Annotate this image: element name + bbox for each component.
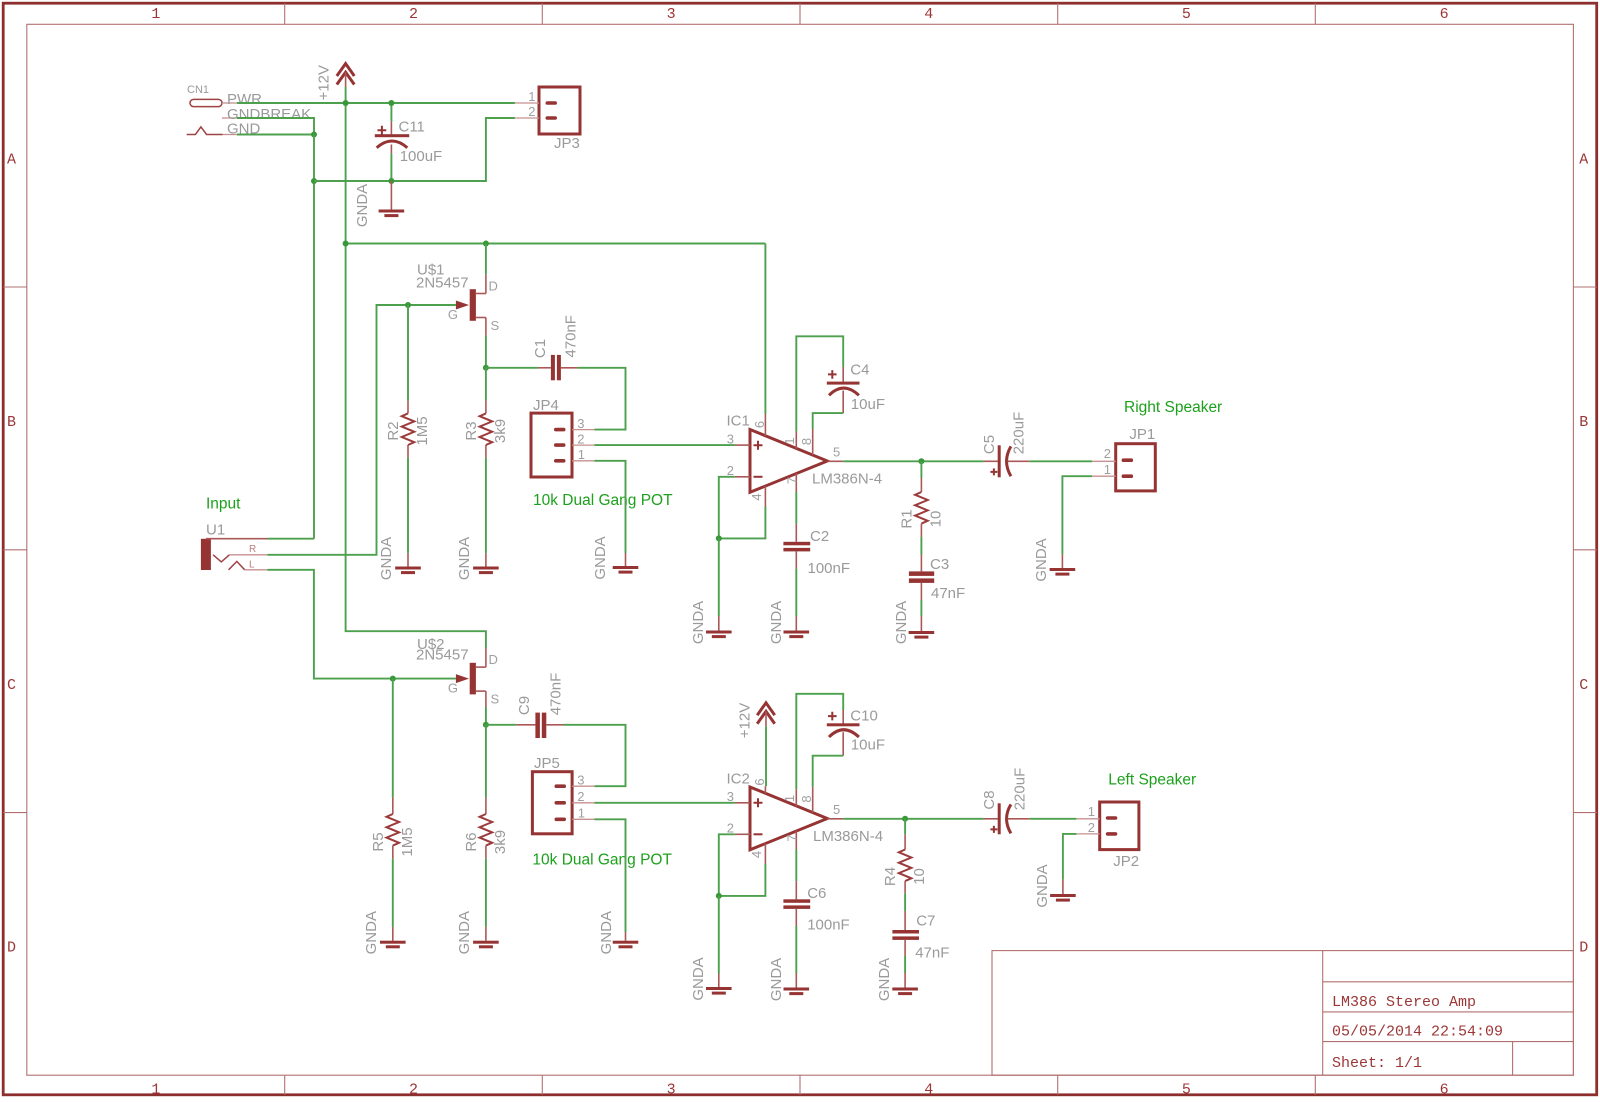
svg-text:2: 2: [727, 820, 734, 835]
svg-text:47nF: 47nF: [915, 945, 949, 962]
ground GNDA below C7: [876, 958, 918, 1001]
wire JP5 pin1 to ground: [594, 819, 625, 932]
node junction gate R2: [405, 302, 411, 308]
svg-text:10: 10: [911, 868, 928, 885]
ground GNDA below R6: [456, 911, 499, 954]
svg-text:C: C: [1579, 677, 1588, 694]
frame column tick bottom 3/4: [799, 1075, 801, 1094]
svg-text:6: 6: [752, 778, 767, 785]
svg-text:R6: R6: [463, 832, 480, 851]
svg-text:D: D: [1579, 940, 1588, 957]
svg-text:GNDA: GNDA: [456, 537, 473, 580]
svg-text:C10: C10: [850, 707, 878, 724]
wire IC2 pin1 bypass loop: [796, 694, 843, 789]
svg-text:A: A: [1579, 151, 1588, 168]
node junction output R4: [902, 816, 908, 822]
ground GNDA below R5: [363, 911, 406, 954]
svg-text:1: 1: [782, 437, 797, 444]
wire right channel input to U$1 gate: [268, 305, 456, 555]
wire +12V branch to IC1 pin6: [346, 243, 766, 245]
svg-text:GNDA: GNDA: [1034, 864, 1051, 907]
svg-text:6: 6: [752, 421, 767, 428]
ground GNDA below R3: [456, 537, 499, 580]
svg-text:Right Speaker: Right Speaker: [1124, 399, 1222, 416]
svg-text:6: 6: [1440, 6, 1449, 23]
svg-text:2: 2: [528, 104, 535, 119]
svg-text:JP5: JP5: [534, 755, 560, 772]
frame row labels left: [7, 151, 16, 956]
svg-text:U1: U1: [206, 521, 225, 538]
svg-text:2N5457: 2N5457: [416, 647, 469, 664]
node junction feedback 2: [716, 893, 722, 899]
pin CN1 GNDBREAK: [222, 106, 311, 123]
svg-text:4: 4: [924, 1081, 933, 1098]
svg-text:Left Speaker: Left Speaker: [1108, 772, 1196, 789]
svg-text:GNDA: GNDA: [363, 911, 380, 954]
svg-text:C11: C11: [399, 119, 425, 136]
svg-text:8: 8: [799, 795, 814, 802]
frame column tick top 2/3: [541, 3, 543, 24]
svg-text:4: 4: [749, 493, 764, 500]
wire GNDBREAK to GND net: [237, 118, 314, 135]
svg-text:D: D: [489, 279, 498, 294]
svg-text:LM386N-4: LM386N-4: [812, 471, 882, 488]
svg-text:GNDA: GNDA: [1033, 538, 1050, 581]
connector JP5: [532, 755, 594, 834]
resistor R4 10: [882, 819, 928, 911]
svg-text:C3: C3: [930, 556, 949, 573]
svg-text:3: 3: [727, 431, 734, 446]
supply symbol +12V bottom: [736, 703, 774, 738]
svg-text:10uF: 10uF: [851, 737, 885, 754]
svg-text:GNDA: GNDA: [592, 536, 609, 579]
svg-text:Input: Input: [206, 495, 241, 512]
wire IC2 pin4 to feedback node: [719, 864, 766, 896]
svg-text:+12V: +12V: [316, 65, 333, 100]
pin U1 L: [245, 560, 268, 571]
svg-text:3k9: 3k9: [492, 830, 509, 854]
resistor R6 3k9: [463, 725, 509, 927]
connector CN1 power jack: [187, 84, 223, 135]
svg-text:5: 5: [1182, 1081, 1191, 1098]
node junction U$1 drain branch: [483, 241, 489, 247]
svg-text:LM386N-4: LM386N-4: [813, 828, 883, 845]
wire C1 to JP4 pin3: [577, 368, 625, 430]
wire left channel input to U$2 gate: [268, 570, 456, 679]
frame column tick top 4/5: [1057, 3, 1059, 24]
node junction C11 top: [388, 100, 394, 106]
resistor R5 1M5: [370, 679, 416, 927]
svg-text:1: 1: [151, 1081, 160, 1098]
svg-text:C6: C6: [807, 885, 826, 902]
wire IC2 output: [843, 818, 983, 820]
svg-text:2: 2: [409, 1081, 418, 1098]
svg-text:1: 1: [782, 795, 797, 802]
capacitor C6 100nF on pin7: [783, 850, 849, 974]
transistor U$1 2N5457: [416, 262, 500, 336]
pin CN1 GND: [223, 121, 261, 138]
connector JP2: [1076, 802, 1139, 870]
svg-text:3: 3: [577, 773, 584, 788]
svg-text:5: 5: [833, 802, 840, 817]
node junction gate R5: [390, 676, 396, 682]
svg-text:10uF: 10uF: [851, 396, 885, 413]
frame column tick bottom 1/2: [284, 1075, 286, 1094]
svg-text:GNDA: GNDA: [456, 911, 473, 954]
svg-text:1: 1: [528, 89, 535, 104]
svg-text:3k9: 3k9: [492, 419, 509, 443]
svg-text:G: G: [448, 681, 458, 696]
node junction +12V branch: [343, 241, 349, 247]
svg-text:2: 2: [727, 463, 734, 478]
wire C10 bottom to IC2 pin8: [813, 756, 844, 787]
svg-text:GNDA: GNDA: [378, 537, 395, 580]
svg-text:7: 7: [785, 477, 800, 484]
capacitor C4 10uF: [827, 362, 885, 414]
svg-text:10k Dual Gang POT: 10k Dual Gang POT: [532, 852, 672, 869]
svg-text:S: S: [491, 692, 500, 707]
frame row tick right C/D: [1573, 812, 1597, 814]
frame row tick right A/B: [1573, 286, 1597, 288]
resistor R2 1M5: [385, 305, 431, 553]
ground GNDA below JP2: [1034, 864, 1076, 907]
ground GNDA below R2: [378, 537, 421, 580]
ground GNDA below IC2 pin2: [690, 957, 732, 1000]
wire GND pin to junction: [237, 134, 314, 136]
svg-text:5: 5: [1182, 6, 1191, 23]
svg-text:GNDA: GNDA: [768, 958, 785, 1001]
svg-text:2: 2: [577, 431, 584, 446]
svg-text:470nF: 470nF: [548, 673, 565, 716]
resistor R3 3k9: [463, 368, 509, 553]
wire JP1 pin1 to ground: [1062, 476, 1092, 554]
pin U1 sleeve: [229, 538, 268, 540]
svg-text:R3: R3: [463, 421, 480, 440]
svg-text:1: 1: [1104, 462, 1111, 477]
svg-text:L: L: [249, 560, 255, 571]
wire feedback node 2 to ground: [718, 896, 720, 974]
pin U1 R: [229, 544, 267, 555]
svg-text:S: S: [491, 318, 500, 333]
svg-text:5: 5: [833, 445, 840, 460]
svg-text:JP4: JP4: [533, 397, 559, 414]
svg-text:1M5: 1M5: [414, 416, 431, 445]
wire C5 to JP1 pin2: [1030, 460, 1092, 462]
wire C4 bottom to IC1 pin8: [813, 413, 844, 429]
svg-text:4: 4: [924, 6, 933, 23]
frame column tick bottom 5/6: [1314, 1075, 1316, 1094]
wire U$2 source to C9 node: [485, 707, 487, 725]
frame column labels bottom: [151, 1081, 1448, 1098]
resistor R1 10: [898, 461, 944, 554]
capacitor C8 220uF: [981, 768, 1030, 835]
frame column tick bottom 4/5: [1057, 1075, 1059, 1094]
svg-text:JP2: JP2: [1113, 853, 1139, 870]
svg-text:GNDA: GNDA: [354, 184, 371, 227]
ground GNDA below JP1: [1033, 538, 1075, 581]
svg-text:100nF: 100nF: [807, 917, 850, 934]
frame row tick left C/D: [3, 812, 27, 814]
svg-text:C: C: [7, 677, 16, 694]
svg-text:GNDA: GNDA: [598, 911, 615, 954]
wire +12V vertical rail: [346, 87, 486, 648]
title block row line 3: [1323, 1041, 1574, 1043]
svg-text:R4: R4: [882, 867, 899, 886]
wire +12V to IC2 pin6: [765, 726, 767, 786]
svg-text:JP1: JP1: [1129, 426, 1155, 443]
svg-text:GNDA: GNDA: [690, 957, 707, 1000]
svg-text:IC1: IC1: [727, 413, 750, 430]
svg-text:GNDA: GNDA: [768, 601, 785, 644]
transistor U$2 2N5457: [416, 636, 500, 707]
svg-text:1: 1: [578, 806, 585, 821]
frame row tick left B/C: [3, 549, 27, 551]
ground GNDA below C2: [768, 601, 809, 644]
svg-text:6: 6: [1440, 1081, 1449, 1098]
op-amp IC2 LM386N-4: [727, 771, 884, 865]
ground GNDA below C3: [893, 601, 934, 644]
svg-text:G: G: [448, 307, 458, 322]
title block sheet cell divider: [1512, 1042, 1514, 1076]
svg-text:2: 2: [1104, 446, 1111, 461]
wire JP4 pin2 to IC1 pin3: [594, 444, 734, 446]
svg-text:2: 2: [409, 6, 418, 23]
wire +12V net PWR to JP3 pin1: [237, 102, 515, 104]
svg-text:3: 3: [667, 6, 676, 23]
connector JP4: [531, 397, 594, 477]
svg-text:10: 10: [927, 511, 944, 528]
svg-text:05/05/2014 22:54:09: 05/05/2014 22:54:09: [1332, 1024, 1503, 1041]
wire IC2 pin2 feedback: [719, 834, 735, 896]
svg-text:2: 2: [1088, 820, 1095, 835]
svg-text:R5: R5: [370, 832, 387, 851]
svg-text:R: R: [249, 544, 256, 555]
svg-text:8: 8: [799, 438, 814, 445]
frame column tick top 1/2: [284, 3, 286, 24]
svg-text:B: B: [7, 414, 16, 431]
svg-text:3: 3: [577, 416, 584, 431]
svg-text:C7: C7: [916, 913, 935, 930]
svg-text:IC2: IC2: [727, 771, 750, 788]
node junction feedback: [716, 535, 722, 541]
wire IC1 pin4 to feedback node: [719, 507, 766, 539]
svg-text:B: B: [1579, 414, 1588, 431]
svg-text:100nF: 100nF: [808, 560, 851, 577]
svg-text:4: 4: [749, 851, 764, 858]
frame column labels top: [151, 6, 1448, 23]
capacitor C10 10uF: [827, 707, 885, 755]
svg-text:470nF: 470nF: [563, 315, 580, 358]
svg-text:C5: C5: [981, 435, 998, 454]
capacitor C9 470nF: [486, 673, 565, 738]
node junction source C9 R6: [483, 722, 489, 728]
svg-text:47nF: 47nF: [931, 585, 965, 602]
svg-text:C2: C2: [810, 528, 829, 545]
svg-text:220uF: 220uF: [1011, 412, 1028, 455]
svg-text:A: A: [7, 151, 16, 168]
svg-text:Sheet: 1/1: Sheet: 1/1: [1332, 1055, 1422, 1072]
ground GNDA below JP5 pin1: [598, 911, 638, 954]
wire JP4 pin1 to ground: [594, 461, 625, 553]
wire sleeve to GND vertical: [268, 538, 315, 540]
ground GNDA below C6: [768, 958, 809, 1001]
frame row tick right B/C: [1573, 549, 1597, 551]
svg-text:1: 1: [578, 447, 585, 462]
svg-text:GNDA: GNDA: [690, 601, 707, 644]
svg-text:LM386 Stereo Amp: LM386 Stereo Amp: [1332, 994, 1476, 1011]
ground GNDA below IC1 pin2: [690, 601, 732, 644]
svg-text:220uF: 220uF: [1012, 768, 1029, 811]
svg-text:C1: C1: [532, 339, 549, 358]
svg-text:R1: R1: [898, 509, 915, 528]
capacitor C1 470nF: [486, 315, 580, 380]
capacitor C2 100nF on pin7: [783, 492, 850, 616]
connector JP3: [515, 87, 580, 152]
svg-text:GNDA: GNDA: [893, 601, 910, 644]
svg-text:3: 3: [727, 789, 734, 804]
svg-text:1M5: 1M5: [399, 827, 416, 856]
wire U$1 source to C1 node: [485, 336, 487, 368]
connector U1 stereo input jack: [201, 521, 245, 570]
ground GNDA below JP4 pin1: [592, 536, 638, 579]
svg-text:D: D: [7, 940, 16, 957]
wire JP5 pin2 to IC2 pin3: [594, 802, 734, 804]
svg-text:1: 1: [1088, 804, 1095, 819]
svg-text:R2: R2: [385, 421, 402, 440]
node junction source C1 R3: [483, 365, 489, 371]
wire feedback node to ground: [718, 538, 720, 616]
wire IC1 pin1 bypass loop: [796, 336, 843, 431]
supply symbol +12V top: [316, 64, 355, 101]
frame column tick bottom 2/3: [541, 1075, 543, 1094]
svg-text:C9: C9: [516, 696, 533, 715]
capacitor C5 220uF: [981, 412, 1030, 478]
svg-text:+12V: +12V: [736, 703, 753, 738]
svg-text:10k Dual Gang POT: 10k Dual Gang POT: [533, 492, 673, 509]
capacitor C11: [375, 103, 442, 181]
pin CN1 PWR: [222, 91, 262, 108]
node junction +12V at PWR wire: [343, 100, 349, 106]
svg-text:100uF: 100uF: [400, 148, 443, 165]
node junction GND branch at y181: [311, 178, 317, 184]
title block outline: [992, 951, 1573, 1076]
title block row line 2: [1323, 1011, 1574, 1013]
connector JP1: [1092, 426, 1155, 491]
capacitor C7 47nF: [892, 911, 949, 973]
wire GND vertical down to input jack sleeve: [313, 135, 315, 539]
frame column tick top 3/4: [799, 3, 801, 24]
svg-text:D: D: [489, 652, 498, 667]
node junction GND at x314: [311, 132, 317, 138]
node junction C11 bottom: [388, 178, 394, 184]
node junction output R1: [918, 458, 924, 464]
wire C9 to JP5 pin3: [564, 725, 626, 786]
capacitor C3 47nF: [909, 555, 965, 617]
frame column tick top 5/6: [1314, 3, 1316, 24]
svg-text:C8: C8: [981, 790, 998, 809]
wire C8 to JP2 pin1: [1030, 818, 1077, 820]
svg-text:2N5457: 2N5457: [416, 275, 469, 292]
wire IC1 pin2 feedback: [719, 477, 735, 539]
svg-text:3: 3: [667, 1081, 676, 1098]
wire JP2 pin2 to ground: [1063, 834, 1077, 880]
title block divider vertical: [1322, 951, 1324, 1076]
frame row tick left A/B: [3, 286, 27, 288]
svg-text:2: 2: [577, 789, 584, 804]
svg-text:7: 7: [785, 834, 800, 841]
svg-text:JP3: JP3: [554, 135, 580, 152]
wire IC1 output: [843, 460, 983, 462]
title block row line 1: [1323, 981, 1574, 983]
wire GND branch to JP3 pin2: [314, 118, 515, 181]
wire U$1 drain: [485, 244, 487, 275]
op-amp IC1 LM386N-4: [727, 413, 883, 507]
svg-text:1: 1: [151, 6, 160, 23]
wire IC1 pin6 supply: [764, 244, 766, 415]
frame row labels right: [1579, 151, 1588, 956]
svg-text:GNDA: GNDA: [876, 958, 893, 1001]
svg-text:C4: C4: [850, 362, 869, 379]
svg-text:CN1: CN1: [187, 84, 209, 96]
ground GNDA below C11: [354, 181, 404, 227]
